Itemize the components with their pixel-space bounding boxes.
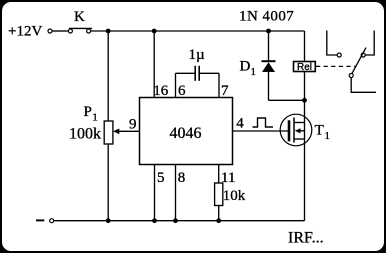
svg-text:T: T [315,123,324,139]
relay contact upper-left throw [327,31,341,58]
svg-text:IRF...: IRF... [288,229,324,246]
relay contact upper-right throw [361,31,374,58]
wire top rail corner to relay [304,31,306,62]
wire P1 top [107,31,109,122]
wire top rail [91,30,305,32]
switch K [68,9,92,33]
pulse waveform symbol [253,118,274,127]
diode D1 [240,31,276,100]
svg-text:8: 8 [178,170,186,186]
wire relay to drain node [304,72,306,101]
svg-text:1: 1 [92,111,98,123]
relay contact arm [352,48,366,75]
junction bottom rail pin5 [152,218,157,223]
junction bottom rail P1 [106,218,111,223]
svg-text:1: 1 [325,130,331,142]
wire drain node to source to rail [304,100,306,220]
wire P1 bottom [107,144,109,221]
wire pin 8 [175,165,177,221]
ic U1 4046 [140,98,233,165]
svg-text:9: 9 [129,116,137,132]
terminal +12V [48,29,52,33]
svg-text:16: 16 [153,83,169,99]
wire diode to drain node [269,99,305,101]
svg-text:1N 4007: 1N 4007 [239,9,294,25]
capacitor 1µ [176,47,220,81]
junction bottom rail 10k [216,218,221,223]
dashed link relay to contact [316,65,356,67]
svg-text:1: 1 [251,66,257,78]
wire bottom rail [54,220,305,222]
junction top rail P1 [106,29,111,34]
terminal minus [36,219,54,223]
svg-text:K: K [74,9,85,25]
mosfet T1 [280,114,330,146]
wire pin 16 [153,31,155,98]
junction bottom rail pin8 [173,218,178,223]
svg-text:5: 5 [157,170,165,186]
svg-text:4046: 4046 [170,125,202,142]
wiper arrow of P1 to pin 9 [113,129,140,135]
resistor 10k [215,183,246,206]
svg-text:D: D [240,59,251,75]
svg-text:P: P [84,104,92,120]
svg-text:6: 6 [178,83,186,99]
svg-text:Rel: Rel [297,62,312,73]
wire pin 5 [154,165,156,221]
svg-text:10k: 10k [223,188,246,204]
svg-text:100k: 100k [69,126,101,143]
wire 10k to rail [218,206,220,221]
wire pin 4 to gate [233,130,289,132]
wire pin 11 [218,165,220,184]
potentiometer P1 [69,104,113,144]
relay contact common [349,74,376,93]
junction drain node [302,98,307,103]
wire terminal to switch [52,30,68,32]
svg-text:4: 4 [236,115,244,131]
svg-text:7: 7 [221,83,229,99]
svg-text:1µ: 1µ [189,47,206,63]
wire pin 6 [175,73,177,97]
wire pin 7 [218,73,220,97]
junction top rail D1 [266,29,271,34]
relay coil Rel [294,62,316,73]
junction top rail pin16 [152,29,157,34]
svg-text:+12V: +12V [8,24,42,40]
